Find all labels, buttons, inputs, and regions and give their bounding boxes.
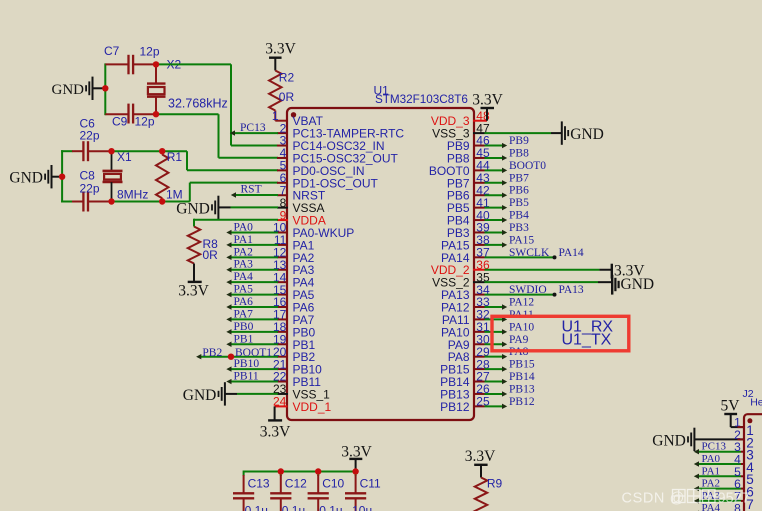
svg-text:PA1: PA1: [702, 465, 721, 477]
svg-text:VSS_2: VSS_2: [432, 276, 470, 290]
svg-text:9527: 9527: [718, 491, 750, 507]
junction rail C10: [315, 468, 321, 474]
net PA3 wire (pin13): [226, 267, 278, 272]
svg-text:22p: 22p: [80, 129, 100, 143]
U1 pin 1 VBAT: [293, 114, 324, 128]
ground GND (VSS_2 pin35): [485, 275, 655, 295]
junction PB2 node: [228, 354, 234, 360]
svg-text:RST: RST: [241, 184, 262, 196]
svg-text:3.3V: 3.3V: [465, 448, 496, 465]
connector J2 body: [744, 414, 762, 511]
U1 pin 23 VSS_1: [277, 387, 330, 401]
J2 pin2 stub: [738, 438, 745, 440]
svg-text:PA12: PA12: [441, 301, 470, 315]
U1 pin 36 VDD_2: [431, 263, 485, 277]
svg-text:BOOT1: BOOT1: [235, 347, 272, 359]
J2 pin1 marker dot: [747, 418, 752, 423]
U1 pin 37 PA14: [441, 251, 484, 265]
U1 pin 12 PA2: [277, 251, 315, 265]
resistor R1: [156, 151, 168, 201]
svg-text:PB13: PB13: [509, 383, 535, 395]
svg-text:PA12: PA12: [509, 297, 534, 309]
svg-text:12p: 12p: [135, 115, 155, 129]
svg-text:PB5: PB5: [509, 197, 529, 209]
svg-text:GND: GND: [183, 387, 217, 404]
svg-text:C11: C11: [360, 477, 381, 491]
net PA12 wire (pin33): [485, 304, 508, 309]
net PA2 wire (pin12): [226, 255, 278, 260]
U1 pin 15 PA5: [277, 288, 315, 302]
net PA11 wire (pin32): [485, 317, 508, 322]
J2 pin1 stub: [738, 426, 745, 428]
ground GND (VSS_1 pin23): [183, 382, 278, 405]
node X1 bottom junction: [108, 198, 114, 204]
net RST wire (pin7): [231, 192, 278, 197]
net PA7 wire (pin17): [226, 317, 278, 322]
svg-text:C13: C13: [248, 477, 270, 491]
U1 pin 45 PB8: [447, 151, 485, 165]
svg-text:PA11: PA11: [442, 313, 470, 327]
net PA10 wire (pin31): [485, 329, 508, 334]
svg-text:0.1u: 0.1u: [282, 504, 305, 511]
power 3.3V (VDD_1 pin24): [260, 406, 291, 440]
svg-text:PB15: PB15: [509, 359, 535, 371]
ground GND (X1 circuit): [9, 165, 62, 188]
capacitor C6: [72, 141, 112, 161]
capacitor C7: [105, 55, 156, 75]
wire VDDA (pin9) to R8: [194, 219, 278, 227]
U1 pin 6 PD1-OSC_OUT: [277, 176, 379, 190]
svg-text:PB5: PB5: [447, 201, 470, 215]
svg-text:PB7: PB7: [447, 176, 470, 190]
wire X2 bottom to U1 pin4: [156, 114, 278, 158]
watermark CSDN: [622, 490, 750, 507]
svg-text:PB3: PB3: [509, 222, 529, 234]
svg-text:PA14: PA14: [441, 251, 470, 265]
U1 pin 10 PA0-WKUP: [277, 226, 354, 240]
node X2 bottom junction: [153, 111, 159, 117]
power 3.3V (R2 top): [265, 41, 296, 71]
crystal X1: [103, 151, 123, 201]
svg-text:PA10: PA10: [509, 321, 534, 333]
svg-text:PA4: PA4: [234, 271, 254, 283]
svg-text:C10: C10: [322, 477, 344, 491]
U1 pin 29 PA8: [448, 350, 485, 364]
svg-text:STM32F103C8T6: STM32F103C8T6: [375, 93, 468, 106]
capacitor C8: [72, 192, 112, 212]
svg-text:PB14: PB14: [440, 375, 470, 389]
svg-text:R9: R9: [487, 477, 503, 491]
U1 pin 34 PA13: [441, 288, 484, 302]
net PA2 wire (J2 pin6): [694, 486, 745, 491]
resistor R8: [188, 227, 200, 282]
svg-text:PA3: PA3: [234, 259, 254, 271]
power 3.3V (R9): [465, 448, 496, 478]
svg-text:VDD_2: VDD_2: [431, 263, 470, 277]
net PA8 wire (pin29): [485, 354, 508, 359]
net PA1 wire (J2 pin5): [694, 474, 745, 479]
svg-text:3.3V: 3.3V: [260, 424, 291, 441]
svg-text:PA10: PA10: [441, 325, 470, 339]
capacitor C12: [270, 475, 291, 511]
svg-text:12p: 12p: [140, 45, 160, 59]
svg-text:SWCLK: SWCLK: [509, 247, 550, 259]
svg-text:SWDIO: SWDIO: [509, 284, 547, 296]
net PB12 wire (pin25): [485, 404, 508, 409]
U1 pin 5 PD0-OSC_IN: [277, 164, 365, 178]
U1 pin 14 PA4: [277, 276, 315, 290]
svg-text:PA2: PA2: [702, 478, 721, 490]
svg-text:C7: C7: [104, 44, 120, 58]
U1 pin 41 PB5: [447, 201, 485, 215]
net PA15 wire (pin38): [485, 242, 508, 247]
capacitor C10: [308, 475, 329, 511]
svg-text:PA9: PA9: [509, 334, 529, 346]
U1 pin 20 PB2: [277, 350, 316, 364]
U1 pin 26 PB13: [440, 387, 484, 401]
capacitor C11: [345, 475, 366, 511]
net PB6 wire (pin42): [485, 193, 508, 198]
net PB8 wire (pin45): [485, 155, 508, 160]
crystal X2: [147, 64, 166, 114]
svg-text:VDD_3: VDD_3: [431, 114, 470, 128]
svg-text:PA8: PA8: [448, 350, 470, 364]
net PB14 wire (pin27): [485, 379, 508, 384]
svg-text:PC13: PC13: [702, 441, 727, 453]
net PB11 wire (pin22): [226, 379, 278, 384]
junction X1-GND node: [59, 174, 65, 180]
svg-text:PA15: PA15: [509, 234, 534, 246]
svg-text:PB12: PB12: [509, 396, 535, 408]
svg-text:GND: GND: [652, 432, 686, 449]
svg-text:10u: 10u: [352, 504, 372, 511]
wire X2 left rail: [104, 63, 106, 115]
U1 pin 8 VSSA: [277, 201, 325, 215]
power 3.3V (VDD_3 pin48): [472, 92, 503, 121]
svg-text:GND: GND: [9, 170, 43, 187]
svg-text:Header 8: Header 8: [750, 396, 762, 408]
svg-text:1: 1: [272, 109, 279, 123]
svg-text:PA5: PA5: [234, 284, 254, 296]
svg-text:PB7: PB7: [509, 172, 529, 184]
U1 pin 47 VSS_3: [432, 127, 484, 141]
net PB1 wire (pin19): [226, 342, 278, 347]
net PC13 wire (J2 pin3): [694, 449, 745, 454]
svg-text:PB10: PB10: [234, 358, 260, 370]
svg-text:PA13: PA13: [559, 284, 584, 296]
ground GND (VSS_3 pin47): [485, 121, 604, 144]
svg-text:PB15: PB15: [440, 363, 470, 377]
junction X2-GND node: [102, 85, 108, 91]
svg-text:PA0: PA0: [702, 453, 721, 465]
svg-text:PB1: PB1: [234, 333, 254, 345]
ground GND (VSSA pin8): [176, 196, 278, 219]
node X2 top junction: [153, 61, 159, 67]
svg-text:BOOT0: BOOT0: [429, 164, 470, 178]
svg-text:PA0: PA0: [234, 221, 254, 233]
U1 pin 28 PB15: [440, 363, 484, 377]
svg-text:3.3V: 3.3V: [265, 41, 296, 58]
wire X1 top rail to R1: [112, 150, 163, 152]
svg-text:PA7: PA7: [234, 308, 254, 320]
svg-text:C12: C12: [285, 477, 307, 491]
U1 pin 35 VSS_2: [432, 276, 484, 290]
svg-text:PC13: PC13: [240, 122, 266, 134]
svg-text:PA13: PA13: [441, 288, 470, 302]
svg-text:VSS_3: VSS_3: [432, 127, 470, 141]
svg-text:GND: GND: [570, 126, 604, 143]
U1 pin 42 PB6: [447, 189, 485, 203]
U1 pin 48 VDD_3: [431, 114, 470, 128]
net PA5 wire (pin15): [226, 292, 278, 297]
wire X1 top to U1 pin5 (PD0): [162, 151, 278, 170]
wire X1 bottom to U1 pin6 (PD1): [162, 183, 278, 202]
net PB2/BOOT1 wire (pin20): [196, 354, 278, 359]
wire X2 top to U1 pin3: [156, 64, 278, 145]
net PB4 wire (pin40): [485, 217, 508, 222]
svg-text:3.3V: 3.3V: [178, 282, 209, 299]
svg-text:5V: 5V: [721, 397, 741, 414]
svg-text:PB2: PB2: [202, 347, 222, 359]
resistor R2: [269, 71, 287, 121]
net PB0 wire (pin18): [226, 329, 278, 334]
net BOOT0 wire (pin44): [485, 168, 508, 173]
svg-text:GND: GND: [621, 276, 655, 293]
svg-text:PB9: PB9: [447, 139, 470, 153]
svg-text:8MHz: 8MHz: [117, 188, 148, 202]
svg-text:PB4: PB4: [509, 210, 529, 222]
net PA6 wire (pin16): [226, 304, 278, 309]
power 3.3V (below R8): [178, 282, 209, 299]
svg-text:R2: R2: [279, 71, 295, 85]
U1 pin 13 PA3: [277, 263, 315, 277]
U1 pin 24 VDD_1: [293, 400, 332, 414]
U1 pin 43 PB7: [447, 176, 485, 190]
svg-text:PB6: PB6: [447, 189, 470, 203]
svg-text:3.3V: 3.3V: [472, 92, 503, 109]
svg-text:VDD_1: VDD_1: [293, 400, 332, 414]
svg-text:GND: GND: [176, 200, 210, 217]
net PB13 wire (pin26): [485, 391, 508, 396]
net PA1 wire (pin11): [226, 242, 278, 247]
svg-text:PB6: PB6: [509, 185, 529, 197]
svg-text:PB0: PB0: [234, 321, 254, 333]
net PB7 wire (pin43): [485, 180, 508, 185]
svg-text:GND: GND: [52, 82, 85, 98]
svg-text:PB8: PB8: [447, 151, 470, 165]
U1 pin 9 VDDA: [277, 214, 326, 228]
U1 pin 17 PA7: [277, 313, 315, 327]
wire X1 left rail: [61, 150, 72, 202]
net PB5 wire (pin41): [485, 205, 508, 210]
net PA0 wire (J2 pin4): [694, 461, 745, 466]
svg-text:PA9: PA9: [448, 338, 470, 352]
U1 pin 4 PC15-OSC32_OUT: [277, 151, 399, 165]
U1 pin1 marker dot: [291, 112, 296, 117]
highlight box U1_RX/U1_TX: [492, 316, 629, 351]
net PC13 wire (pin2): [230, 130, 278, 135]
capacitor C9: [105, 104, 156, 124]
svg-text:U1_TX: U1_TX: [562, 331, 612, 348]
U1 pin 2 PC13-TAMPER-RTC: [277, 127, 404, 141]
node X1 top junction: [108, 148, 114, 154]
svg-text:32.768kHz: 32.768kHz: [168, 97, 228, 111]
ground GND (X2 circuit): [52, 77, 106, 100]
svg-text:0R: 0R: [203, 248, 219, 262]
power 3.3V (VDD_2 pin36): [485, 263, 646, 280]
U1 pin 46 PB9: [447, 139, 485, 153]
resistor R9: [475, 478, 487, 511]
U1 pin 40 PB4: [447, 214, 485, 228]
svg-text:PA6: PA6: [234, 296, 254, 308]
svg-text:0.1u: 0.1u: [245, 504, 268, 511]
U1 pin 7 NRST: [277, 189, 326, 203]
svg-text:PB3: PB3: [447, 226, 470, 240]
U1 pin 19 PB1: [277, 338, 316, 352]
svg-text:PB11: PB11: [234, 371, 259, 383]
U1 pin 18 PB0: [277, 325, 316, 339]
svg-text:PA1: PA1: [234, 234, 254, 246]
U1 pin 33 PA12: [441, 301, 484, 315]
U1 pin 30 PA9: [448, 338, 485, 352]
svg-text:0.1u: 0.1u: [319, 504, 342, 511]
svg-text:PB12: PB12: [440, 400, 470, 414]
svg-text:PA2: PA2: [234, 246, 254, 258]
U1 pin 44 BOOT0: [429, 164, 485, 178]
net PA4 wire (pin14): [226, 279, 278, 284]
wire decoupling rail: [244, 471, 356, 477]
power 5V (J2 pin1): [721, 397, 745, 427]
net PB9 wire (pin46): [485, 143, 508, 148]
U1 pin 39 PB3: [447, 226, 485, 240]
svg-text:C8: C8: [80, 169, 96, 183]
net SWDIO/PA13 wire (pin34): [485, 293, 557, 297]
net PB15 wire (pin28): [485, 366, 508, 371]
U1 pin 21 PB10: [277, 363, 322, 377]
svg-text:PB14: PB14: [509, 371, 535, 383]
wire X1 bottom rail to R1: [112, 201, 163, 203]
net PA3 wire (J2 pin7): [694, 498, 745, 503]
net PA0 wire (pin10): [226, 230, 278, 235]
IC U1 STM32F103C8T6 body: [287, 108, 474, 420]
net PB10 wire (pin21): [226, 366, 278, 371]
U1 pin 11 PA1: [277, 238, 315, 252]
svg-text:BOOT0: BOOT0: [509, 160, 546, 172]
junction rail C11: [352, 468, 358, 474]
net PA9 wire (pin30): [485, 342, 508, 347]
junction rail C12: [278, 468, 284, 474]
svg-text:PB13: PB13: [440, 387, 470, 401]
net SWCLK/PA14 wire (pin37): [485, 255, 557, 259]
U1 pin 25 PB12: [440, 400, 484, 414]
U1 pin 32 PA11: [442, 313, 485, 327]
capacitor C13: [233, 475, 254, 511]
U1 pin 3 PC14-OSC32_IN: [277, 139, 385, 153]
ground GND (J2 pin2): [652, 428, 744, 451]
U1 pin 22 PB11: [277, 375, 321, 389]
svg-text:PA15: PA15: [441, 238, 470, 252]
svg-text:22p: 22p: [80, 182, 100, 196]
U1 pin 31 PA10: [441, 325, 484, 339]
svg-text:0R: 0R: [279, 90, 295, 104]
node R1 bottom junction: [159, 198, 165, 204]
svg-text:PA14: PA14: [559, 247, 584, 259]
power 3.3V (decoupling rail): [341, 443, 372, 471]
svg-text:CSDN @: CSDN @: [622, 491, 685, 507]
svg-text:PB9: PB9: [509, 135, 529, 147]
U1 pin 27 PB14: [440, 375, 484, 389]
svg-text:PB8: PB8: [509, 147, 529, 159]
U1 pin 16 PA6: [277, 301, 315, 315]
node R1 top junction: [159, 148, 165, 154]
U1 pin 38 PA15: [441, 238, 484, 252]
svg-text:PB4: PB4: [447, 214, 470, 228]
svg-text:C9: C9: [112, 115, 128, 129]
net PB3 wire (pin39): [485, 230, 508, 235]
